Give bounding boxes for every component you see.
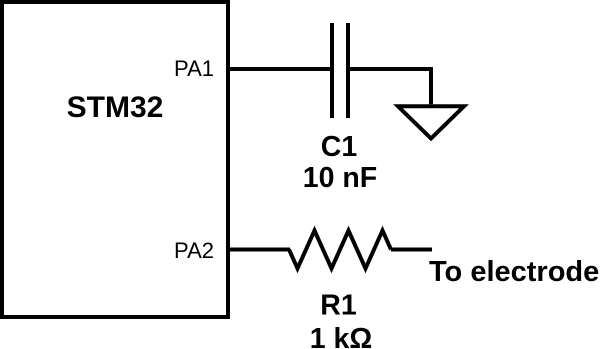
wire R1 to electrode [391,248,432,252]
ground [398,106,464,138]
svg-text:10 nF: 10 nF [303,162,377,194]
svg-text:PA1: PA1 [174,56,214,81]
resistor R1 [289,231,391,269]
wire C1 to ground [348,69,431,104]
svg-text:C1: C1 [321,131,358,163]
wire PA2 to R1 [228,248,290,252]
IC U1 STM32 box [2,2,228,317]
svg-text:STM32: STM32 [67,91,164,124]
svg-text:1 kΩ: 1 kΩ [310,323,372,349]
wire PA1 to C1 [228,67,332,71]
svg-text:R1: R1 [320,290,357,322]
capacitor C1 [332,23,348,118]
svg-text:PA2: PA2 [174,238,214,263]
svg-text:To electrode: To electrode [429,256,599,288]
